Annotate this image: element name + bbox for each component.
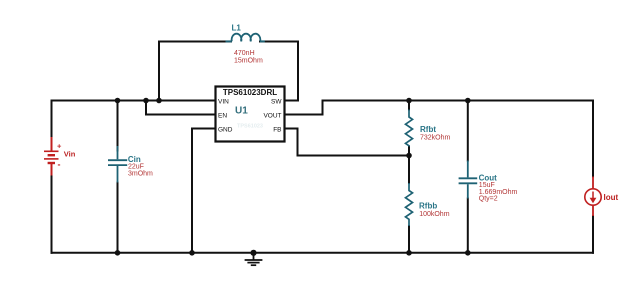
svg-text:FB: FB — [273, 126, 281, 133]
svg-text:-: - — [58, 160, 61, 170]
svg-text:TPS61023DRL: TPS61023DRL — [223, 88, 277, 97]
svg-text:Iout: Iout — [604, 193, 619, 202]
svg-text:Qty=2: Qty=2 — [479, 196, 498, 203]
svg-text:+: + — [57, 141, 62, 150]
svg-text:Cout: Cout — [479, 173, 498, 182]
svg-text:3mOhm: 3mOhm — [128, 171, 153, 178]
svg-text:EN: EN — [218, 112, 227, 119]
svg-text:VOUT: VOUT — [263, 112, 281, 119]
svg-text:TPS61023: TPS61023 — [237, 123, 263, 129]
svg-text:100kOhm: 100kOhm — [419, 211, 450, 218]
svg-text:GND: GND — [218, 126, 233, 133]
svg-text:15mOhm: 15mOhm — [234, 58, 263, 65]
svg-text:L1: L1 — [232, 24, 242, 33]
svg-text:Cin: Cin — [128, 155, 141, 164]
svg-text:Vin: Vin — [64, 149, 76, 158]
svg-text:VIN: VIN — [218, 98, 229, 105]
svg-text:732kOhm: 732kOhm — [420, 134, 451, 141]
svg-text:22uF: 22uF — [128, 164, 144, 171]
svg-text:470nH: 470nH — [234, 50, 255, 57]
svg-text:Rfbb: Rfbb — [419, 201, 437, 210]
svg-text:SW: SW — [271, 98, 282, 105]
svg-text:Rfbt: Rfbt — [420, 125, 436, 134]
svg-text:U1: U1 — [235, 106, 248, 117]
